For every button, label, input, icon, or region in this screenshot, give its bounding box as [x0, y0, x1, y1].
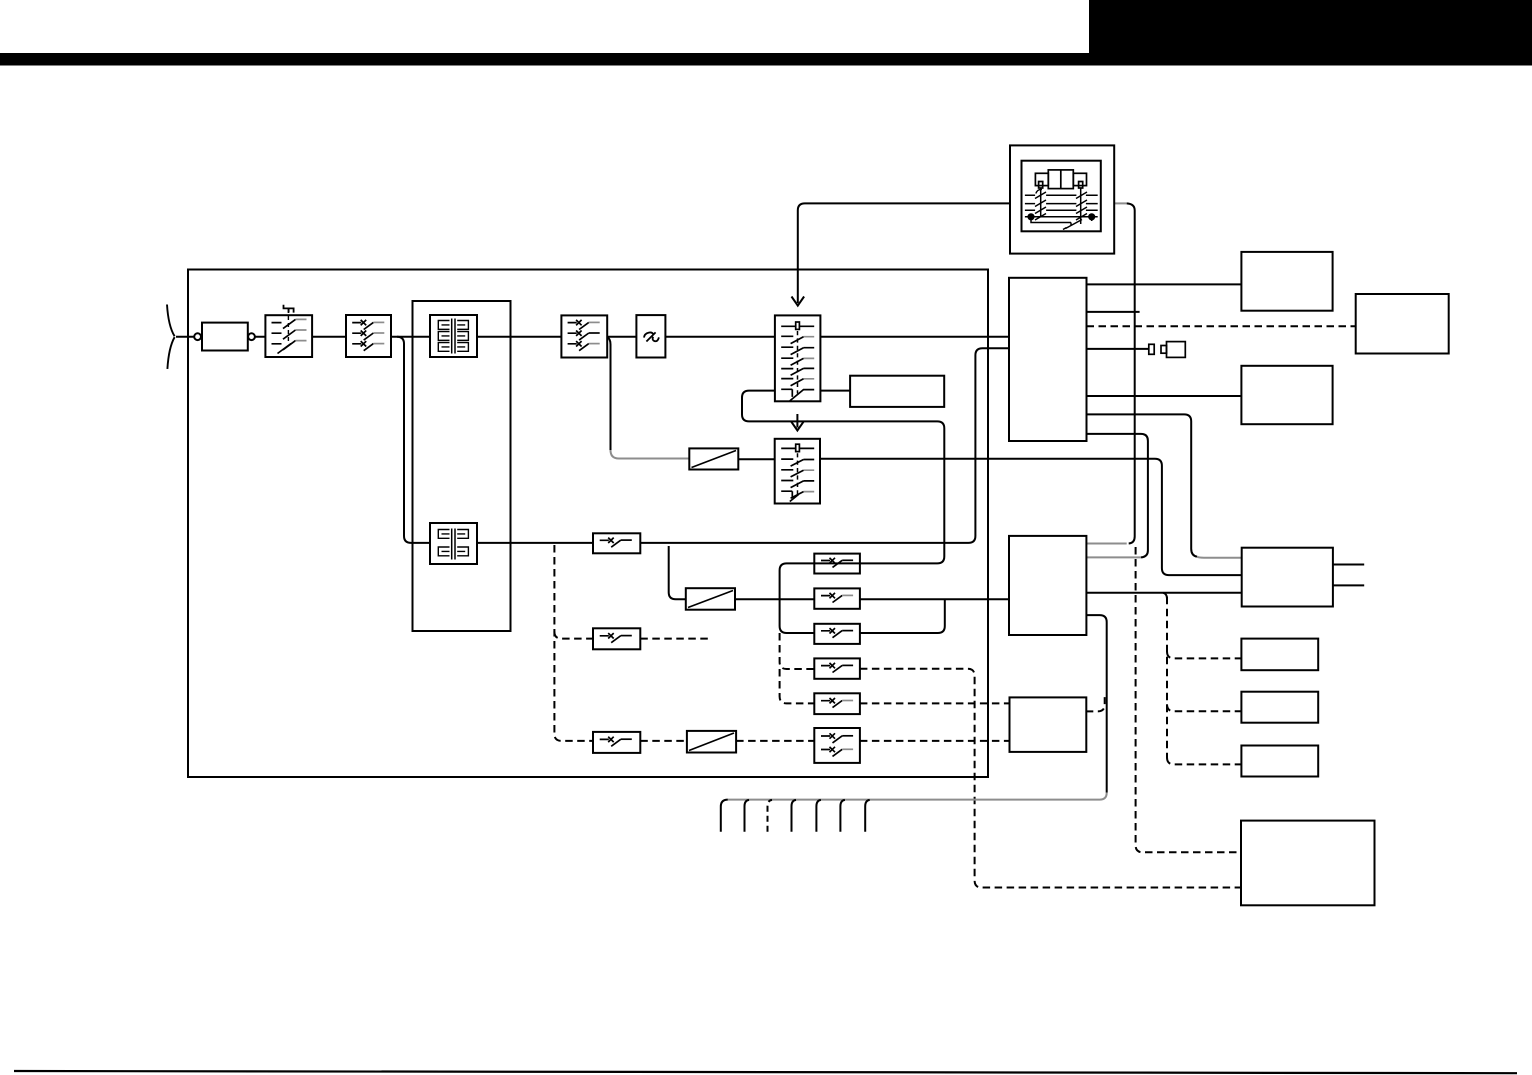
block B	[1356, 294, 1449, 354]
motor switch actuator rods	[1041, 188, 1081, 224]
wire: dashed from long vertical down to function block	[1136, 547, 1241, 852]
motor switch contact rows	[1025, 192, 1098, 220]
wire: long vertical from motor switch to system control 2	[1127, 203, 1135, 536]
rectifier REC2	[686, 588, 735, 610]
wire: motor switch right stub to long vertical	[1114, 202, 1127, 204]
plug P1	[1161, 342, 1185, 358]
wire: control 1 output y=284.4 to block A	[1087, 283, 1242, 285]
wire: T2 secondary line y=542.9 to relay M0 and up into system control	[477, 348, 1009, 543]
arrow head into stack1	[792, 297, 805, 306]
rectifier REC3 (standby chain)	[687, 731, 736, 753]
power transformer outer block	[413, 301, 511, 631]
header black bar	[0, 53, 1532, 66]
wire: stack2 output line y=458.7 to power block	[738, 459, 1241, 575]
wire: rectifier REC2 output to relay column junction	[735, 598, 814, 600]
corner joining grey stub to long vertical	[1129, 537, 1135, 544]
switch stack ST2	[775, 439, 820, 504]
relay switch SW2	[346, 315, 391, 357]
wire: dashed spur to relay M1	[554, 632, 710, 639]
wire: relay S3 output rejoining S2 line	[860, 599, 945, 633]
relay switch SW3	[561, 315, 607, 357]
relay S3	[814, 624, 860, 644]
connector comb dashed tooth	[768, 800, 773, 832]
relay S5	[814, 693, 860, 714]
actuator arc	[1036, 189, 1042, 193]
system control block 1	[1009, 278, 1087, 441]
enclosure (main chassis outline)	[188, 270, 988, 778]
AC plug fork	[167, 305, 175, 369]
rectifier REC1	[689, 448, 738, 469]
footer rule	[14, 1071, 1517, 1073]
switch stack ST1	[775, 315, 821, 401]
wire: dashed stub from control 3 right	[1086, 697, 1104, 711]
wire: dashed relay S6 output to system control 3	[860, 740, 1010, 742]
wire: control 1 output to connector plug	[1087, 348, 1149, 350]
wire: junction riser to relay S1	[780, 563, 815, 599]
wire: relay S2 output to system control 2	[860, 598, 1009, 600]
block A	[1241, 252, 1332, 311]
relay M2 (standby chain)	[593, 732, 640, 753]
wire: dashed branch from that line down to small blocks F G H	[1167, 597, 1241, 765]
block F	[1241, 639, 1318, 671]
wire: power block D speaker outputs	[1333, 565, 1364, 586]
motor switch bottom linkage	[1031, 217, 1092, 230]
relay M0 on T2 line	[593, 533, 640, 553]
node: filter output terminal	[248, 333, 255, 340]
wire: branch down to transformer T2	[397, 337, 430, 543]
corner: dashed branch start	[1163, 593, 1167, 599]
wire: motor switch drive line with arrow into stack1	[798, 203, 1010, 303]
block C	[1241, 366, 1332, 424]
wire: control 2 y=557.4 up to control 1 y=433.9	[1086, 556, 1141, 558]
transformer T1	[430, 315, 477, 357]
motor driven switch inner box	[1022, 161, 1101, 232]
wire: mains input to switch chain (main line y=336.7)	[176, 336, 1009, 338]
line filter block	[202, 323, 248, 351]
wire: control 1 output y=311.9 to motor line	[1087, 311, 1140, 313]
wire: control 1 output to block C	[1087, 395, 1242, 397]
wire: dashed standby chain on left	[554, 545, 814, 741]
wire: control 2 y=615.1 down and left to connector comb	[1086, 615, 1106, 793]
wire: dashed relay S4 output down to function block	[860, 669, 1241, 888]
power block D	[1242, 548, 1333, 607]
relay S4	[814, 658, 860, 678]
relay S6 (double)	[814, 728, 860, 763]
node: line input terminal	[194, 333, 201, 340]
power switch SW1	[265, 309, 312, 357]
wire: dashed control 1 to block B	[1087, 325, 1356, 327]
wire: branch from y=542.9 down to rectifier REC2	[669, 546, 686, 599]
wire: primary stack loop (stack1 left to relay S1)	[742, 391, 944, 564]
relay block R1	[850, 376, 944, 407]
AC voltage adjuster	[636, 315, 665, 357]
timer symbol above power switch SW1	[284, 305, 294, 313]
wire: grey stub from system control 2 top right	[1086, 543, 1126, 545]
wire: dashed relay S5 output to system control 3	[860, 702, 1010, 704]
transformer T2	[430, 523, 477, 564]
block G	[1241, 692, 1318, 723]
function block I	[1241, 821, 1375, 906]
motor driven switch unit outer box	[1010, 145, 1114, 253]
wire: junction drop to relay S3	[780, 599, 815, 633]
wire: stack1 output to relay block R1	[820, 390, 850, 392]
wire: branch from SW3 down to rectifier REC1	[607, 337, 611, 450]
header black block top right	[1089, 0, 1532, 66]
wire: control 2 to power block D y=592.8	[1086, 592, 1241, 594]
connector CN1	[1149, 344, 1154, 354]
system control block 2	[1009, 536, 1086, 635]
arrow into stack2	[791, 414, 804, 431]
relay M1 (dashed spur)	[593, 628, 640, 649]
relay S2	[814, 588, 860, 608]
wire: dashed junction drop to relays S4 S5	[780, 633, 815, 703]
wire: control 1 y=414.4 down to power block D	[1087, 414, 1198, 556]
motor switch common dots	[1027, 213, 1034, 220]
connector comb teeth	[721, 800, 870, 832]
system control block 3	[1010, 697, 1087, 752]
block H	[1241, 746, 1318, 777]
motor body	[1035, 170, 1086, 189]
relay S1	[814, 554, 860, 574]
